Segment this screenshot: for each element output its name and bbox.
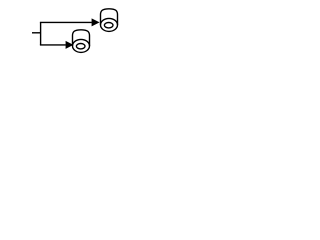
wire input stub — [32, 32, 41, 34]
arrowhead to cylinder 2 — [66, 41, 74, 49]
wire top branch — [40, 21, 92, 23]
wire vertical branch — [40, 22, 42, 45]
wire bottom branch — [40, 44, 66, 46]
arrowhead to cylinder 1 — [92, 18, 100, 26]
cylinder node 2 — [73, 30, 90, 53]
cylinder node 1 — [101, 9, 118, 32]
